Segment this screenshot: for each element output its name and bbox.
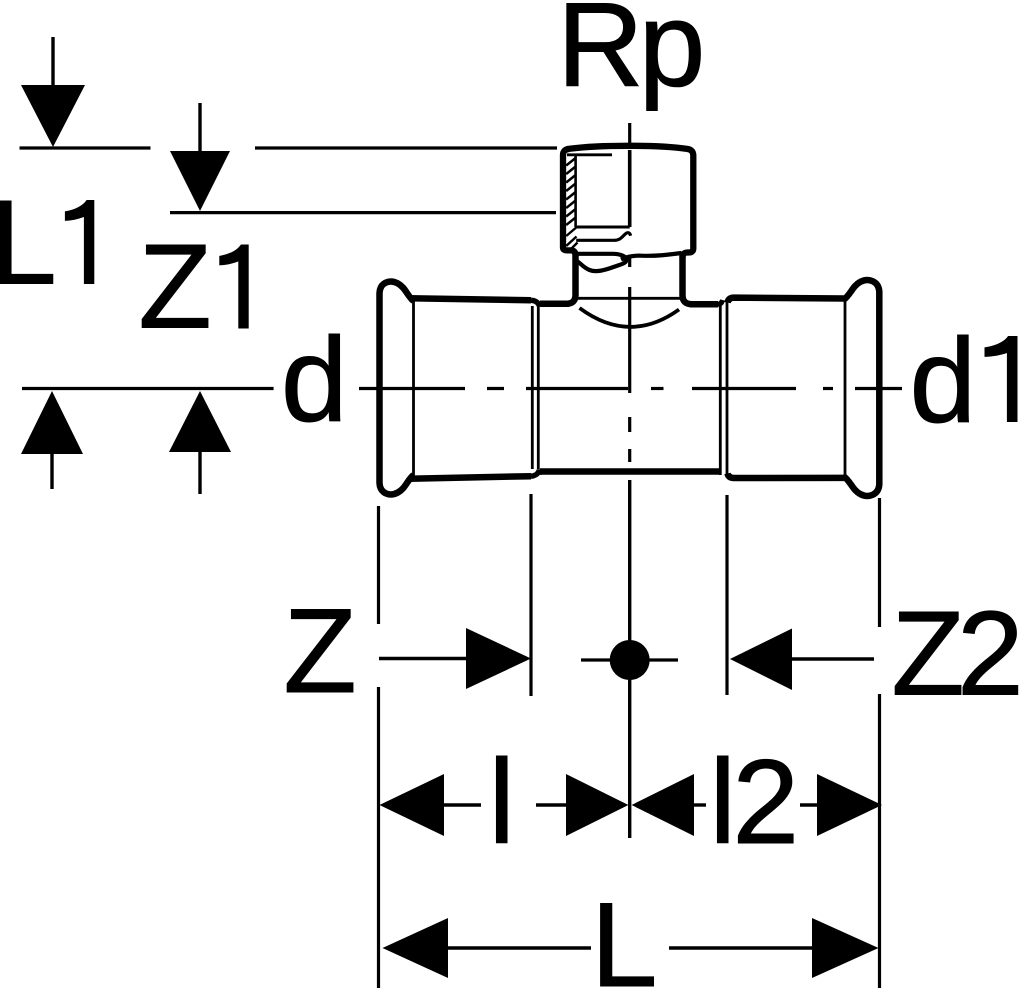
right socket top edge with shoulder bbox=[728, 298, 846, 303]
dimension arrow L1 down (shaft) bbox=[51, 37, 54, 92]
centre body top edge, right of branch bbox=[690, 301, 718, 308]
dimension arrow Z2 left (head) bbox=[730, 629, 792, 691]
break line across to right neck bbox=[621, 253, 682, 260]
thread band boundary line bbox=[574, 156, 577, 228]
svg-text:d: d bbox=[910, 314, 977, 448]
step outline bottom bbox=[531, 472, 542, 476]
svg-text:L: L bbox=[0, 176, 57, 310]
svg-text:L: L bbox=[591, 878, 658, 988]
extension line x=879.5 (right end) bbox=[878, 498, 881, 627]
branch threaded cap outline bbox=[563, 146, 693, 258]
dimension arrow l2 left (head) bbox=[632, 774, 694, 836]
dimension extension line y=148 (top of branch), left part under L1 arrow bbox=[20, 146, 151, 149]
dimension arrow L right (head) bbox=[812, 918, 879, 978]
thread hatch marks bbox=[566, 158, 577, 253]
svg-text:d: d bbox=[281, 313, 348, 447]
svg-text:Rp: Rp bbox=[557, 0, 705, 112]
dimension arrow L left (head) bbox=[383, 918, 449, 978]
dimension arrow l left (shaft) bbox=[444, 803, 481, 806]
left socket top edge bbox=[409, 298, 531, 300]
left press-end bead (flange) outline bbox=[380, 282, 414, 495]
left socket end-face line bbox=[412, 300, 415, 476]
thread runout line with wave crest bbox=[576, 233, 630, 241]
dimension arrow l2 right (shaft) bbox=[800, 803, 822, 806]
thread bore end line bbox=[576, 226, 630, 229]
right press-end bead (flange) outline bbox=[844, 280, 879, 496]
right body seam shoulder (left side) bbox=[718, 300, 723, 304]
dimension arrow L1 down (head) bbox=[21, 85, 85, 147]
right socket seam lines bbox=[719, 301, 722, 475]
body silhouette line behind branch bbox=[578, 297, 681, 300]
dimension arrow Z1 down (shaft) bbox=[198, 103, 201, 156]
dimension extension line y=148, right part to branch bbox=[255, 146, 557, 149]
branch neck right wall with fillet bbox=[683, 252, 693, 304]
horizontal main centerline, left run (solid) bbox=[22, 387, 274, 390]
dimension arrow Z right (shaft) bbox=[379, 657, 470, 660]
dimension arrow d up at x=52 (head) bbox=[21, 391, 83, 454]
step seam lines bbox=[531, 306, 534, 469]
branch section boundary line (solid, at centerline) bbox=[628, 150, 632, 227]
branch neck left wall with fillet bbox=[566, 252, 576, 304]
left socket bottom edge bbox=[409, 476, 531, 479]
dimension arrow l right (head) bbox=[566, 774, 628, 836]
branch vertical centerline (dash-dot) bbox=[628, 123, 631, 462]
extension line x=629.7 (branch centre) bbox=[628, 480, 631, 838]
dimension arrow L right (shaft) bbox=[669, 946, 817, 949]
centre reference tick line bbox=[581, 658, 678, 661]
step outline top (socket to centre body) bbox=[531, 300, 542, 304]
dimension arrow d up at x=200 (head) bbox=[169, 391, 231, 452]
horizontal main centerline through fitting (dash-dot) bbox=[359, 387, 902, 390]
extension line x=531 bbox=[529, 494, 532, 696]
extension line x=727 bbox=[725, 495, 728, 695]
centre body top edge, left of branch bbox=[540, 301, 569, 308]
svg-text:Z: Z bbox=[283, 584, 356, 718]
dimension arrow d up at x=52 (shaft) bbox=[50, 450, 53, 489]
dimension arrow l right (shaft) bbox=[536, 803, 567, 806]
extension line x=378.5 (left end) bbox=[377, 506, 380, 624]
svg-text:l2: l2 bbox=[709, 735, 799, 869]
cap inner top line bbox=[567, 153, 612, 156]
centre reference dot bbox=[610, 640, 650, 680]
dimension extension line y=212.6 (thread end plane) bbox=[170, 211, 556, 214]
dimension arrow l left (head) bbox=[380, 774, 445, 836]
centre body bottom edge bbox=[540, 468, 719, 475]
right socket bottom edge with shoulder bbox=[728, 473, 846, 478]
dimension arrow Z2 left (shaft) bbox=[788, 657, 874, 660]
dimension arrow Z right (head) bbox=[466, 628, 531, 689]
right socket end-face line bbox=[844, 299, 847, 477]
svg-text:Z: Z bbox=[138, 220, 211, 354]
saddle intersection arc at branch base bbox=[580, 308, 680, 327]
svg-text:l: l bbox=[488, 735, 515, 869]
break line lower ledge with S-wave bbox=[578, 254, 627, 271]
dimension arrow l2 left (shaft) bbox=[694, 803, 706, 806]
dimension arrow Z1 down (head) bbox=[170, 151, 230, 211]
dimension arrow L left (shaft) bbox=[444, 946, 591, 949]
dimension arrow l2 right (head) bbox=[817, 774, 882, 836]
dimension arrow d up at x=200 (shaft) bbox=[198, 448, 201, 494]
svg-text:Z2: Z2 bbox=[891, 587, 1023, 721]
